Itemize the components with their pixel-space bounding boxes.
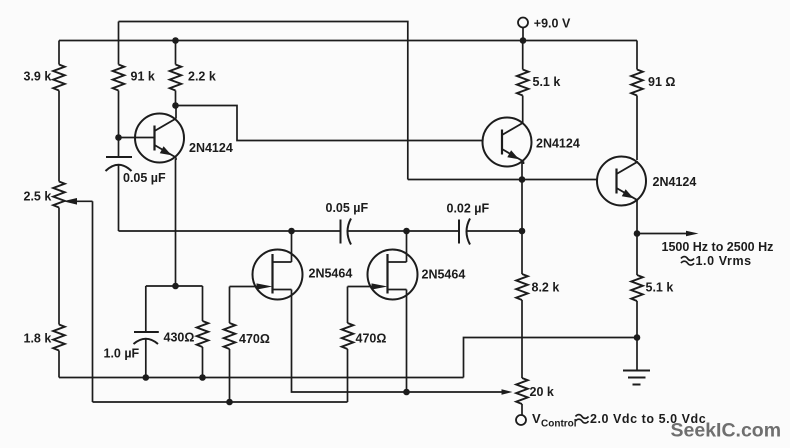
wire: JFET1 source down	[292, 290, 407, 393]
ground	[623, 338, 650, 385]
svg-text:SeekIC.com: SeekIC.com	[671, 420, 782, 442]
JFET U2 2N5464	[368, 250, 418, 300]
svg-text:+9.0 V: +9.0 V	[534, 17, 571, 31]
wire: Q1 base wire	[119, 137, 155, 139]
resistor 8.2k (x=522)	[516, 274, 528, 378]
wire: source bus arrow to 20k	[407, 389, 513, 395]
svg-text:2.2 k: 2.2 k	[188, 70, 216, 84]
svg-text:0.05 µF: 0.05 µF	[326, 201, 369, 215]
wire: JFET2 drain up	[406, 231, 408, 262]
svg-text:8.2 k: 8.2 k	[532, 281, 560, 295]
resistor 1.8k (x=59)	[53, 325, 65, 378]
node: source bus junction	[403, 389, 410, 396]
label output level	[681, 257, 694, 266]
svg-text:3.9 k: 3.9 k	[24, 70, 52, 84]
wire: wiper bus y=402	[93, 401, 348, 403]
svg-text:2N4124: 2N4124	[189, 141, 233, 155]
capacitor C3 0.02uF series	[459, 219, 470, 245]
svg-text:2N4124: 2N4124	[653, 175, 697, 189]
svg-text:470Ω: 470Ω	[356, 332, 387, 346]
resistor 430 ohm (x=202.5)	[197, 286, 209, 381]
node: Q1 base junction	[115, 134, 122, 141]
node: JFET1 drain junction	[288, 228, 295, 235]
transistor Q2 2N4124	[483, 118, 532, 167]
wire: JFET1 drain up	[291, 231, 293, 262]
svg-text:0.02 µF: 0.02 µF	[447, 202, 490, 216]
node: output junction	[634, 230, 641, 237]
wire: Q1 collector to Q2 base	[176, 106, 483, 141]
svg-text:2N5464: 2N5464	[422, 268, 466, 282]
svg-text:1.0 Vrms: 1.0 Vrms	[696, 254, 752, 268]
node: +9V terminal	[518, 18, 528, 44]
resistor 5.1k upper (x=522.7)	[517, 41, 529, 123]
wire: ground bus y=377.5	[59, 377, 464, 379]
svg-text:2N5464: 2N5464	[309, 267, 353, 281]
node: ground junction	[634, 334, 641, 341]
node: Q1 collector junction	[172, 102, 179, 109]
wire: JFET2 gate	[348, 286, 378, 288]
potentiometer 20k (x=522)	[516, 378, 528, 415]
wire: Q2 emitter node horizontal y=179.5 from 407.8 to Q3 base	[408, 179, 598, 181]
resistor 5.1k lower (x=637)	[631, 234, 643, 338]
wire: +9V rail, y=40.5 from x=59 to x=637	[59, 40, 637, 42]
node: Q2 emitter junction	[519, 176, 526, 183]
resistor 470 ohm first (x=229.5)	[224, 287, 236, 406]
svg-text:20 k: 20 k	[530, 385, 554, 399]
svg-text:91 k: 91 k	[131, 70, 155, 84]
resistor 3.9k (x=59)	[53, 41, 65, 182]
capacitor C2 0.05uF series	[341, 219, 352, 245]
label Vcontrol	[532, 411, 706, 430]
node: emitter RC top junction	[146, 283, 203, 290]
wire: top feedback wire y=21.5 from 91k top to x=407.8	[119, 22, 408, 180]
node: JFET2 drain junction	[403, 228, 410, 235]
svg-text:430Ω: 430Ω	[164, 331, 195, 345]
resistor 2.2k (x=175.5)	[170, 37, 182, 105]
resistor 91k (x=118.5)	[113, 22, 125, 138]
svg-text:1.0 µF: 1.0 µF	[104, 347, 140, 361]
svg-text:5.1 k: 5.1 k	[646, 281, 674, 295]
svg-text:Control: Control	[541, 419, 577, 430]
svg-text:1500 Hz to 2500 Hz: 1500 Hz to 2500 Hz	[662, 240, 774, 254]
wire: output arrow	[637, 231, 699, 237]
svg-text:2.5 k: 2.5 k	[24, 190, 52, 204]
wire: Q2 emitter down through node to 8.2k	[521, 162, 523, 274]
transistor Q1 2N4124	[135, 106, 184, 163]
node: Vcontrol terminal	[516, 415, 526, 425]
wire: Q3 emitter down to output node	[636, 201, 638, 234]
wire: phase-shift line y=231	[119, 230, 341, 232]
JFET U1 2N5464	[253, 250, 303, 300]
wire: Q1 emitter down to RC node	[175, 159, 177, 286]
svg-text:470Ω: 470Ω	[239, 332, 270, 346]
wire: ground link y=337.5	[464, 338, 638, 378]
resistor 91 ohm (x=637)	[631, 41, 643, 161]
svg-text:V: V	[532, 411, 541, 426]
wire: JFET1 gate	[230, 286, 263, 288]
resistor 470 ohm second (x=347.5)	[342, 287, 354, 403]
svg-text:1.8 k: 1.8 k	[24, 332, 52, 346]
node: C3 output junction on x=522	[519, 228, 526, 235]
potentiometer 2.5k (x=59)	[53, 182, 92, 403]
svg-text:5.1 k: 5.1 k	[533, 75, 561, 89]
capacitor C1 0.05uF (x=118.5)	[106, 138, 133, 232]
transistor Q3 2N4124	[597, 157, 646, 206]
svg-text:0.05 µF: 0.05 µF	[123, 171, 166, 185]
wire: JFET2 source down	[406, 290, 408, 393]
svg-text:91 Ω: 91 Ω	[648, 75, 675, 89]
svg-text:2N4124: 2N4124	[536, 137, 580, 151]
capacitor 1.0uF (x=145.8)	[134, 286, 159, 381]
